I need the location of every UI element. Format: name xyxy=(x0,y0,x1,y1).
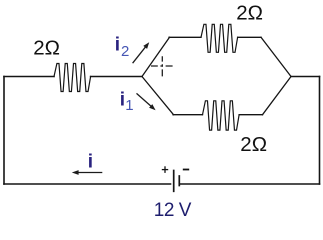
wire top branch right diagonal (down to node B) xyxy=(261,37,291,76)
svg-text:2Ω: 2Ω xyxy=(33,37,60,60)
current arrow i2 xyxy=(133,42,150,63)
wire bottom branch right horizontal xyxy=(239,114,262,116)
node A center mark (dash-dot cross) xyxy=(151,56,173,76)
wire bottom left segment xyxy=(4,183,171,185)
battery V1 long plate (+) xyxy=(173,171,175,192)
svg-text:i: i xyxy=(115,35,120,56)
wire top branch left diagonal (node A up) xyxy=(142,37,170,76)
svg-text:i: i xyxy=(88,151,93,172)
wire top branch right horizontal xyxy=(238,36,261,38)
wire bottom branch left horizontal xyxy=(173,114,203,116)
svg-text:2: 2 xyxy=(121,43,129,60)
resistor R1 zigzag xyxy=(54,64,91,92)
wire right vertical xyxy=(319,77,321,185)
svg-text:2Ω: 2Ω xyxy=(240,133,267,156)
wire top branch left horizontal xyxy=(169,36,201,38)
svg-text:1: 1 xyxy=(125,97,133,114)
wire top-left horizontal (left edge to R1) xyxy=(4,76,54,78)
current arrow i (bottom, pointing left) xyxy=(72,170,103,175)
battery minus sign xyxy=(183,169,189,171)
battery V1 short plate (-) xyxy=(178,176,180,186)
wire right horizontal (node B to right edge) xyxy=(291,76,320,78)
wire left vertical xyxy=(3,77,5,185)
wire bottom branch left diagonal (node A down) xyxy=(142,77,174,115)
resistor R3 zigzag xyxy=(203,101,240,130)
battery plus sign xyxy=(162,166,168,173)
svg-text:i: i xyxy=(120,90,125,111)
svg-text:2Ω: 2Ω xyxy=(236,1,263,24)
resistor R2 zigzag xyxy=(201,24,238,52)
wire bottom branch right diagonal (up to node B) xyxy=(263,77,292,115)
svg-text:12 V: 12 V xyxy=(154,200,192,220)
wire R1 to node A xyxy=(91,76,142,78)
current arrow i1 xyxy=(137,93,156,110)
wire bottom right segment xyxy=(180,183,320,185)
